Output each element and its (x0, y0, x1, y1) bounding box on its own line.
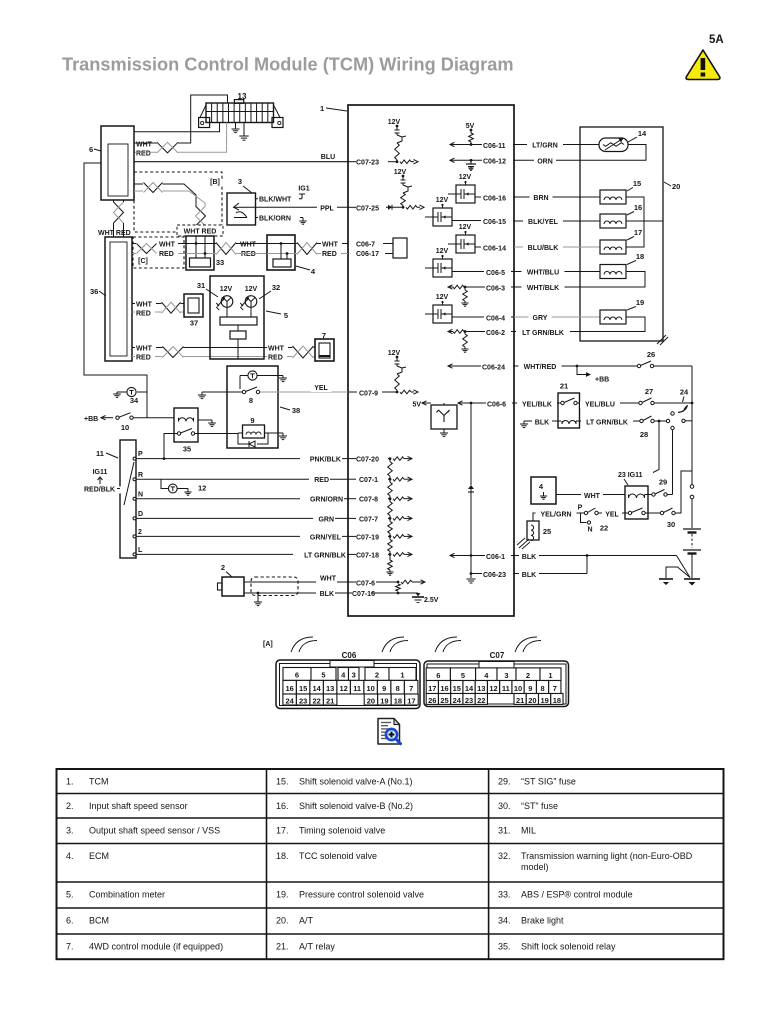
svg-text:R: R (138, 472, 143, 479)
zoom document icon (378, 719, 401, 745)
pin label C06-17 (356, 251, 393, 258)
svg-text:[A]: [A] (263, 641, 273, 648)
speed sensor box 3 (227, 193, 256, 225)
svg-text:31: 31 (197, 281, 205, 290)
svg-text:LT GRN/BLK: LT GRN/BLK (586, 419, 628, 426)
svg-text:C07: C07 (490, 651, 505, 660)
label BLK/WHT (258, 197, 299, 204)
wire RED strand 6-13 (gray) (178, 123, 227, 153)
svg-text:14: 14 (638, 129, 647, 138)
svg-text:19: 19 (636, 298, 644, 307)
label 35 (183, 445, 191, 454)
svg-text:18: 18 (394, 697, 402, 706)
label 19 with leader (627, 298, 644, 310)
svg-text:2.: 2. (66, 801, 74, 811)
TCM sense C06-2 (448, 329, 514, 352)
svg-text:C06-16: C06-16 (483, 195, 506, 202)
wire WHT loop 6-13 (178, 95, 228, 143)
label YEL/BLK (517, 401, 557, 408)
svg-text:C06-6: C06-6 (487, 401, 506, 408)
label RED (36-5) (135, 354, 155, 361)
wire RED C07-1 (136, 478, 348, 480)
label R (138, 472, 143, 479)
shift lock relay 35 (174, 408, 198, 442)
svg-text:C06-24: C06-24 (482, 364, 505, 371)
pin label C06-5 (485, 270, 511, 277)
svg-text:5.: 5. (66, 890, 74, 900)
svg-text:2: 2 (138, 529, 142, 536)
svg-text:BLK/WHT: BLK/WHT (259, 197, 292, 204)
svg-text:1: 1 (400, 671, 404, 680)
wire BLK C07-16 (244, 592, 348, 594)
svg-text:L: L (138, 547, 143, 554)
svg-text:16: 16 (285, 684, 293, 693)
svg-text:[B]: [B] (210, 179, 220, 186)
svg-text:4WD control module (if equippe: 4WD control module (if equipped) (89, 942, 223, 952)
svg-text:27: 27 (645, 387, 653, 396)
svg-text:ORN: ORN (537, 158, 553, 165)
svg-text:3: 3 (352, 671, 356, 680)
svg-text:Output shaft speed sensor / VS: Output shaft speed sensor / VSS (89, 826, 220, 836)
shift solenoid B 16 (600, 214, 626, 228)
svg-text:“ST” fuse: “ST” fuse (521, 801, 558, 811)
svg-text:RED: RED (136, 354, 151, 361)
svg-text:20: 20 (672, 182, 680, 191)
pin label C07-18 (356, 552, 379, 559)
combination meter box 5 (210, 276, 264, 359)
label BLK/YEL (523, 219, 563, 226)
svg-text:BLU: BLU (321, 154, 335, 161)
label 6 with leader (89, 145, 101, 154)
meter internal bar (220, 307, 257, 325)
label 4 with leader (296, 266, 316, 276)
svg-text:C06-17: C06-17 (356, 251, 379, 258)
branch to +BB (577, 366, 609, 384)
ECM box 4 (right) (531, 477, 556, 504)
fuse box 13 (199, 100, 283, 128)
svg-text:TCC solenoid valve: TCC solenoid valve (299, 851, 377, 861)
label LT GRN/BLK (21) (581, 419, 633, 426)
ground right of solenoid 9 (279, 433, 287, 440)
battery rail vertical (690, 366, 694, 528)
svg-text:[C]: [C] (138, 258, 148, 265)
svg-text:Shift solenoid valve-B (No.2): Shift solenoid valve-B (No.2) (299, 801, 413, 811)
actuator circle in 38 (248, 371, 257, 380)
label 21 (560, 382, 568, 391)
pin label C06-23 (482, 572, 513, 579)
svg-text:WHT/BLK: WHT/BLK (527, 285, 559, 292)
label 12 (198, 484, 206, 493)
svg-text:C07-25: C07-25 (356, 205, 379, 212)
label [C] (136, 258, 151, 265)
label C06 (342, 651, 357, 660)
wire RED 33-4 (236, 253, 267, 255)
label 26 (647, 350, 655, 359)
svg-text:MIL: MIL (521, 826, 536, 836)
harness bundle mark 4 (515, 637, 541, 652)
TCM driver C06-14 (448, 224, 514, 253)
svg-text:7: 7 (553, 684, 557, 693)
label C07 (490, 651, 505, 660)
svg-text:30: 30 (667, 520, 675, 529)
label WHT (6-13) (135, 142, 156, 149)
wire ORN return (514, 145, 646, 161)
svg-text:13: 13 (326, 684, 334, 693)
svg-text:5V: 5V (412, 402, 421, 409)
park position solenoid 25 (517, 521, 539, 549)
TCM driver C06-16 (448, 174, 514, 203)
svg-text:31.: 31. (498, 826, 511, 836)
label WHT/RED (519, 364, 562, 371)
svg-text:LT/GRN: LT/GRN (532, 143, 558, 150)
label WHT (33-4) (239, 242, 260, 249)
svg-text:C06-4: C06-4 (486, 315, 505, 322)
label BLK (sensor2) (316, 591, 335, 598)
svg-text:N: N (138, 491, 143, 498)
svg-text:12V: 12V (436, 248, 449, 255)
svg-text:WHT RED: WHT RED (98, 230, 131, 237)
label YEL (22) (602, 511, 622, 518)
twisted pair X 36-5 (163, 347, 184, 358)
wire BLK C06-23 (514, 556, 587, 574)
label WHT (sensor2) (316, 576, 337, 583)
svg-text:3: 3 (504, 671, 508, 680)
svg-text:GRN: GRN (318, 516, 334, 523)
svg-text:YEL: YEL (605, 511, 619, 518)
wire GRN C07-7 (136, 517, 348, 519)
wire BLK/WHT (256, 194, 303, 199)
svg-text:WHT: WHT (322, 242, 339, 249)
svg-text:WHT/RED: WHT/RED (524, 364, 557, 371)
svg-text:12V: 12V (388, 350, 401, 357)
wire 35 to P row (136, 434, 348, 461)
switch 29 (648, 490, 673, 497)
label D (138, 511, 143, 518)
wire sol17 return (626, 221, 644, 247)
svg-text:BLK: BLK (522, 572, 536, 579)
label BLU (318, 154, 339, 161)
label RED (5-7) (267, 354, 287, 361)
ST SIG fuse switch 26 (637, 361, 653, 368)
svg-text:RED: RED (322, 251, 337, 258)
TCM module box U1 (348, 105, 514, 616)
svg-text:12V: 12V (245, 286, 258, 293)
label BRN (530, 195, 553, 202)
wire IG11 drop (653, 421, 659, 473)
PN switch 22 (578, 505, 609, 534)
label 34 (130, 396, 139, 405)
label 12V (31) (220, 286, 233, 293)
wire GRN/ORN C07-8 (136, 498, 348, 500)
svg-text:16.: 16. (276, 801, 289, 811)
svg-text:RED: RED (136, 310, 151, 317)
twisted pair X below 6 (114, 200, 124, 237)
svg-text:12V: 12V (459, 174, 472, 181)
label GRY (529, 315, 552, 322)
label 27 (645, 387, 653, 396)
svg-text:23: 23 (299, 697, 307, 706)
svg-text:14: 14 (465, 684, 474, 693)
svg-text:23 IG11: 23 IG11 (618, 472, 643, 479)
label GRN/YEL (300, 534, 342, 541)
svg-text:Transmission Control Module (T: Transmission Control Module (TCM) Wiring… (62, 55, 514, 75)
svg-text:+BB: +BB (595, 377, 609, 384)
wire WHT C to 33 (178, 243, 186, 245)
svg-text:BLK/ORN: BLK/ORN (259, 215, 291, 222)
svg-text:34: 34 (130, 396, 139, 405)
ABS sensor loom box 36 (105, 237, 132, 361)
wire WHT stub from 6 (128, 142, 157, 144)
ground below battery (684, 579, 700, 586)
dashed box C (133, 237, 184, 268)
svg-text:BCM: BCM (89, 916, 109, 926)
svg-text:“ST SIG” fuse: “ST SIG” fuse (521, 777, 576, 787)
svg-text:C06: C06 (342, 651, 357, 660)
svg-text:BLU/BLK: BLU/BLK (528, 245, 559, 252)
svg-text:WHT: WHT (268, 346, 285, 353)
wire WHT 36-7 (132, 347, 315, 349)
svg-text:1: 1 (548, 671, 552, 680)
svg-text:RED: RED (159, 251, 174, 258)
svg-text:7: 7 (409, 684, 413, 693)
twisted pair X 6-13 (157, 142, 178, 153)
wire sol15 return (626, 197, 644, 221)
label RED (4-TCM) (321, 251, 341, 258)
svg-text:WHT: WHT (320, 576, 337, 583)
pin label C07-25 (348, 205, 403, 213)
dashed label box WHT RED (177, 225, 223, 236)
twisted pair X B2 (196, 206, 206, 226)
svg-text:Combination meter: Combination meter (89, 890, 165, 900)
svg-text:9: 9 (382, 684, 386, 693)
svg-text:15.: 15. (276, 777, 289, 787)
svg-text:5: 5 (321, 671, 325, 680)
connector C07 housing (424, 661, 569, 707)
svg-text:5A: 5A (709, 34, 724, 46)
svg-text:Timing solenoid valve: Timing solenoid valve (299, 826, 385, 836)
indicator bulb 32 (240, 296, 257, 310)
label BLK (21) (532, 419, 552, 426)
svg-text:30.: 30. (498, 801, 511, 811)
pin label C06-2 (485, 330, 511, 337)
svg-text:29.: 29. (498, 777, 511, 787)
TCM C06-1 row (450, 553, 514, 557)
fuse rating label 5A (709, 34, 724, 46)
shift lock unit box 38 (227, 366, 278, 448)
svg-text:20: 20 (528, 696, 536, 705)
ground left of 34 (113, 392, 127, 397)
svg-text:C07-7: C07-7 (359, 516, 378, 523)
svg-text:16: 16 (634, 203, 642, 212)
svg-text:GRN/ORN: GRN/ORN (310, 497, 343, 504)
svg-text:2: 2 (526, 671, 530, 680)
label WHT/BLK (522, 285, 565, 292)
svg-text:8: 8 (540, 684, 544, 693)
label YEL/BLU (580, 401, 620, 408)
svg-text:LT GRN/BLK: LT GRN/BLK (522, 330, 564, 337)
timing solenoid 17 (600, 240, 626, 254)
svg-text:RED: RED (241, 251, 256, 258)
svg-text:YEL/BLU: YEL/BLU (585, 401, 615, 408)
svg-text:5: 5 (461, 671, 465, 680)
svg-text:12V: 12V (459, 224, 472, 231)
svg-text:17: 17 (407, 697, 415, 706)
twisted pair X B1 (144, 183, 163, 193)
label 3 with leader (238, 177, 252, 193)
relay 21 contacts (561, 398, 577, 405)
legend table text (66, 777, 693, 952)
wire WHT 36-33 (132, 243, 136, 245)
svg-text:BLK: BLK (535, 419, 549, 426)
pin label C07-16 (352, 591, 375, 598)
wire pair B into 33 (196, 226, 205, 236)
relay 23 contacts (627, 508, 660, 515)
svg-text:P: P (138, 451, 143, 458)
pin label C07-9 (359, 391, 378, 398)
svg-text:36: 36 (90, 287, 98, 296)
wire WHT/BLK return (514, 272, 645, 288)
svg-text:6.: 6. (66, 916, 74, 926)
label BLU/BLK (523, 245, 563, 252)
label 31 with leader (197, 281, 218, 297)
label RED (33-4) (240, 251, 260, 258)
svg-text:Input shaft speed sensor: Input shaft speed sensor (89, 801, 188, 811)
AT assembly box 20 (580, 127, 663, 341)
harness bundle mark 2 (382, 637, 408, 652)
svg-text:BLK: BLK (320, 591, 334, 598)
ECM box 4 (left) (267, 235, 295, 270)
svg-text:RED: RED (314, 477, 329, 484)
solenoid 9 loop and diode (238, 433, 283, 447)
switch 28 (640, 416, 654, 423)
pin label C06-12 (482, 159, 513, 166)
svg-text:WHT RED: WHT RED (184, 229, 217, 236)
TCM sense C06-24 (448, 364, 514, 368)
label 32 with leader (259, 283, 280, 299)
switch 27 (639, 398, 654, 405)
svg-text:10: 10 (514, 684, 522, 693)
label WHT RED (B) (184, 229, 217, 236)
label 10 (121, 423, 129, 432)
wire pair B bend (163, 184, 206, 206)
shift lock solenoid 9 (243, 425, 265, 438)
svg-text:24: 24 (285, 697, 294, 706)
TCM internal rail C06-6 to gnd (467, 403, 476, 583)
svg-text:13: 13 (238, 92, 247, 101)
svg-text:24: 24 (453, 696, 462, 705)
ABS/ESP control module 33 (186, 236, 214, 270)
svg-text:IG1: IG1 (298, 186, 309, 193)
label YEL/GRN (536, 511, 577, 518)
backup lamp 12 branch (161, 479, 188, 493)
svg-text:32: 32 (272, 283, 280, 292)
svg-text:21: 21 (326, 697, 334, 706)
svg-text:26: 26 (428, 696, 436, 705)
pressure control solenoid 19 (600, 310, 626, 324)
wire 24 to 29 vertical (671, 426, 674, 494)
label 2 (lever) (138, 529, 142, 536)
svg-text:IG11: IG11 (93, 469, 108, 476)
shift lever switch 11 (120, 440, 136, 558)
label WHT (C) (158, 242, 179, 249)
svg-text:20.: 20. (276, 916, 289, 926)
svg-text:26: 26 (647, 350, 655, 359)
TCC solenoid 18 (600, 265, 626, 279)
AT relay 23 (625, 486, 648, 519)
pin label C07-6 (356, 580, 375, 587)
svg-text:C07-1: C07-1 (359, 477, 378, 484)
label 25 (543, 527, 551, 536)
svg-text:32.: 32. (498, 851, 511, 861)
svg-text:4.: 4. (66, 851, 74, 861)
wire BLK to grounds (666, 556, 690, 579)
svg-text:C07-19: C07-19 (356, 534, 379, 541)
label 18 with leader (627, 252, 644, 265)
wire sol16 return (626, 220, 663, 222)
svg-text:C06-14: C06-14 (483, 245, 506, 252)
wire BLK/YEL (514, 220, 600, 222)
svg-text:P: P (578, 505, 583, 512)
label RED (C) (158, 251, 178, 258)
label 16 with leader (627, 203, 642, 215)
svg-text:12V: 12V (394, 169, 407, 176)
ground below sensor 2 (254, 592, 262, 606)
svg-text:D: D (138, 511, 143, 518)
svg-text:Shift solenoid valve-A (No.1): Shift solenoid valve-A (No.1) (299, 777, 413, 787)
wire GRN/YEL C07-19 (136, 535, 348, 537)
wire RED C to 33 (178, 253, 186, 255)
wire left rail (84, 163, 147, 418)
label 8 (249, 396, 253, 405)
wire 26 to battery rail (654, 365, 693, 367)
sensor 2 shield capsule (251, 577, 298, 596)
svg-text:C06-7: C06-7 (356, 242, 375, 249)
svg-text:12V: 12V (388, 119, 401, 126)
svg-text:GRN/YEL: GRN/YEL (310, 534, 342, 541)
label 1 with leader (320, 104, 347, 113)
svg-text:WHT: WHT (240, 242, 257, 249)
svg-text:35.: 35. (498, 942, 511, 952)
svg-text:C06-23: C06-23 (483, 572, 506, 579)
ground at fuse box pin a (231, 123, 239, 133)
svg-text:6: 6 (436, 671, 440, 680)
svg-text:1: 1 (320, 104, 324, 113)
wire RED 4-TCM (295, 253, 348, 255)
svg-text:34.: 34. (498, 916, 511, 926)
wire pair B horizontal (134, 184, 143, 191)
wire YEL/BLU (577, 402, 639, 404)
svg-text:C07-16: C07-16 (352, 591, 375, 598)
svg-text:C07-20: C07-20 (356, 457, 379, 464)
wire LT GRN/BLK C07-18 (136, 553, 348, 555)
label BLK (C06-1) (519, 554, 539, 561)
label LT/GRN (527, 143, 563, 150)
wire 38 top to ground (240, 376, 283, 390)
BCM box 6 (101, 126, 134, 200)
wire 30 to rail (675, 471, 692, 513)
wire WHT 33-4 (236, 243, 267, 245)
wire 28 junction (654, 419, 670, 422)
svg-text:12V: 12V (220, 286, 233, 293)
svg-text:21: 21 (560, 382, 568, 391)
ignition switch 10 (116, 413, 133, 420)
wire WHT C07-6 (244, 581, 348, 583)
svg-text:35: 35 (183, 445, 191, 454)
svg-text:WHT/BLU: WHT/BLU (527, 270, 559, 277)
svg-text:22: 22 (312, 697, 320, 706)
svg-text:BRN: BRN (533, 195, 548, 202)
label 20 with leader (664, 182, 680, 191)
